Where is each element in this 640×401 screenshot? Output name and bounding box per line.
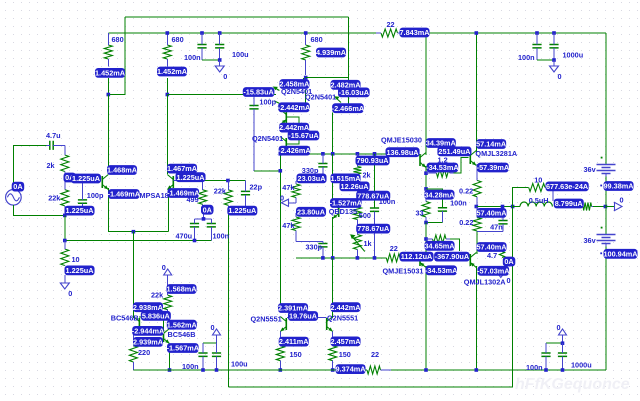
- current label 34.65mA: [425, 241, 456, 251]
- capacitor C 100p input: [78, 200, 87, 203]
- resistor R 10 gnd ref: [61, 249, 69, 266]
- junction x280 y154: [279, 152, 283, 156]
- wire x280 vas rail upper: [279, 150, 281, 304]
- wire Q6 collector jog: [333, 96, 349, 106]
- svg-text:112.12uA: 112.12uA: [401, 252, 433, 261]
- resistor R 2k input: [61, 155, 69, 172]
- wire BC546B bases tie: [139, 317, 164, 336]
- capacitor C 100n rightbot: [541, 353, 550, 356]
- junction y258 x357: [356, 256, 360, 260]
- ground top right: [553, 60, 555, 66]
- svg-text:Q2N5401: Q2N5401: [252, 134, 283, 143]
- current label 1.468mA: [107, 165, 138, 175]
- capacitor C 1000u topright: [549, 45, 558, 48]
- resistor R 47k upper: [292, 184, 300, 198]
- current label 5.836uA: [141, 311, 171, 321]
- svg-text:-2.466mA: -2.466mA: [332, 104, 365, 113]
- wire Vminus rail right: [391, 369, 606, 371]
- resistor R 680 no1: [104, 45, 112, 59]
- transistor Q3 Q2N5401 leads: [275, 88, 280, 91]
- resistor R 33: [422, 202, 430, 218]
- transistor Q9 BC546B: [163, 330, 165, 342]
- capacitor C 1000u rightbot: [558, 353, 567, 356]
- junction node x167 y94: [166, 93, 170, 97]
- junction input ground node: [63, 214, 67, 218]
- svg-text:BC546B: BC546B: [168, 330, 196, 339]
- resistor R load 8: [583, 203, 592, 211]
- svg-text:100n: 100n: [213, 232, 230, 241]
- current label -1.469mA Q1: [108, 189, 141, 199]
- wire caps bottom tie right: [537, 59, 554, 61]
- capacitor C 470u: [190, 224, 199, 227]
- wire x332 to Q15: [332, 258, 334, 318]
- current label 1.225uA fb: [227, 206, 257, 216]
- current label 677.63e-24A: [546, 182, 589, 192]
- resistor R 1.2 lower: [433, 235, 447, 243]
- svg-text:680: 680: [311, 35, 323, 44]
- junction y258 x322: [321, 256, 325, 260]
- svg-text:136.98uA: 136.98uA: [387, 148, 420, 157]
- svg-text:-57.39mA: -57.39mA: [477, 163, 510, 172]
- wire source bottom to input ground node: [13, 205, 64, 215]
- resistor R 680 no3: [302, 45, 310, 60]
- junction node x108 y94: [107, 93, 111, 97]
- wire drop x125 from y17 to input node: [108, 17, 125, 95]
- capacitor C 100n snubber: [438, 208, 447, 211]
- wire mirror line y94: [167, 94, 276, 96]
- capacitor C 100p comp: [249, 106, 258, 109]
- wire 10ohm to gnd: [64, 275, 66, 277]
- svg-text:23.80uA: 23.80uA: [297, 207, 326, 216]
- junction 1.2 lower left: [424, 237, 428, 241]
- wire Q1 emitter down: [108, 188, 168, 232]
- transistor Q7 QBD135: [338, 205, 340, 217]
- junction cap1000u top right: [552, 31, 556, 35]
- svg-text:QBD135: QBD135: [329, 207, 357, 216]
- wire tail down x133: [132, 232, 134, 318]
- current label 2.411mA: [279, 337, 310, 347]
- wire tap tie: [289, 202, 297, 204]
- current label -1.469mA Q2: [167, 188, 200, 198]
- junction out x476: [475, 205, 479, 209]
- wire Q45 base tie: [286, 117, 299, 144]
- current label 57.40mA upper: [477, 208, 508, 218]
- wire feedback riser x228: [227, 215, 229, 388]
- wire output+ collector x476: [475, 33, 477, 152]
- resistor R rail 22: [381, 29, 398, 37]
- terminal arrow out 0: [605, 206, 614, 208]
- battery V2 plus dot: [601, 157, 603, 159]
- wire fb node: [204, 180, 246, 182]
- current label 778.67uA top: [356, 191, 390, 201]
- svg-text:-367.90uA: -367.90uA: [435, 252, 470, 261]
- svg-text:47k: 47k: [282, 221, 295, 230]
- transistor Q10 QMJE15030: [419, 154, 421, 166]
- svg-text:5.836uA: 5.836uA: [142, 311, 171, 320]
- wire output node: [476, 206, 512, 208]
- resistor R 150 right: [329, 346, 337, 361]
- svg-text:33: 33: [416, 208, 424, 217]
- svg-text:1.452mA: 1.452mA: [157, 67, 188, 76]
- wire Q14 emitter: [279, 332, 281, 346]
- svg-text:778.67uA: 778.67uA: [357, 224, 390, 233]
- wire x426 to driver2 emitter: [425, 223, 427, 255]
- svg-text:100n: 100n: [526, 363, 543, 372]
- current label 1.225uA 10ohm: [65, 266, 95, 276]
- svg-text:330p: 330p: [306, 243, 323, 252]
- junction x476 rail: [475, 31, 479, 35]
- capacitor C 100n midbot: [198, 353, 207, 356]
- wire vas lower to driver base: [416, 257, 430, 259]
- junction 470u bottom: [193, 239, 197, 243]
- resistor R 0.22 upper: [473, 180, 481, 196]
- wire lag jog upper: [296, 178, 323, 182]
- svg-text:100.94mA: 100.94mA: [603, 249, 638, 258]
- transistor Q8 BC546B: [138, 318, 140, 330]
- wire mid caps top tie: [203, 342, 217, 344]
- resistor R 499: [199, 190, 207, 205]
- svg-text:1.468mA: 1.468mA: [107, 166, 138, 175]
- wire caps top tie: [195, 218, 212, 220]
- wire 499 to caps split: [203, 213, 205, 219]
- transistor Q1 MPSA18: [101, 176, 103, 188]
- svg-text:19.76uA: 19.76uA: [289, 312, 318, 321]
- current label -16.03uA: [338, 88, 370, 98]
- current label 19.76uA: [288, 311, 318, 321]
- svg-text:-15.83uA: -15.83uA: [243, 88, 274, 97]
- current label 2.442mA Q15: [331, 302, 362, 312]
- wire 680no1 to node: [107, 78, 109, 95]
- junction output tap2: [511, 205, 515, 209]
- svg-text:4.7: 4.7: [487, 251, 497, 260]
- wire x332 mirror drop: [332, 113, 334, 154]
- svg-text:2k: 2k: [363, 171, 372, 180]
- current label -34.53mA top: [426, 163, 459, 173]
- junction y154 x322: [321, 152, 325, 156]
- resistor R 150 left: [276, 346, 284, 361]
- junction x426 y222: [424, 221, 428, 225]
- svg-text:1.562mA: 1.562mA: [167, 320, 198, 329]
- transistor Q4 Q2N5401: [285, 111, 287, 123]
- wire right caps top tie: [546, 342, 563, 344]
- wire vas snubber jog: [426, 189, 443, 208]
- potentiometer arrow 1k: [352, 236, 365, 252]
- junction 680no3 bottom node: [304, 76, 308, 80]
- svg-text:0: 0: [558, 72, 562, 81]
- capacitor C 100u topleft: [215, 45, 224, 48]
- current label -57.03mA: [477, 266, 510, 276]
- capacitor C 330p lower: [318, 244, 327, 247]
- svg-text:1000u: 1000u: [563, 51, 584, 60]
- current label 112.12uA: [400, 252, 434, 262]
- wire Q3 collector jog: [280, 90, 305, 103]
- wire x332 qbd rail: [332, 154, 334, 205]
- svg-text:1k: 1k: [364, 239, 373, 248]
- wire V+ rail y33 left segment: [108, 32, 376, 34]
- battery V3 minus dot: [600, 252, 602, 254]
- current label 1.225uA 22k input: [65, 206, 95, 216]
- wire snubber bottom tie: [426, 222, 443, 224]
- svg-text:500: 500: [359, 211, 371, 220]
- current label 23.03uA: [297, 174, 327, 184]
- current label 34.28mA: [424, 190, 455, 200]
- current label 4.939mA: [316, 48, 347, 58]
- current label -34.53mA bottom: [425, 265, 458, 275]
- svg-text:-34.53mA: -34.53mA: [425, 266, 458, 275]
- svg-text:150: 150: [290, 350, 302, 359]
- ground input: [64, 277, 66, 283]
- capacitor C 100n fbshunt: [207, 224, 216, 227]
- svg-text:100n: 100n: [518, 53, 535, 62]
- current label 2.391mA: [278, 303, 309, 313]
- svg-text:0A: 0A: [504, 257, 514, 266]
- resistor R 1.2 upper: [437, 169, 451, 177]
- svg-text:100n: 100n: [450, 198, 467, 207]
- junction 150L rail: [279, 368, 283, 372]
- resistor R 47k lower: [292, 217, 300, 231]
- svg-text:47n: 47n: [490, 223, 503, 232]
- current label -2.426mA: [278, 146, 311, 156]
- current label 100.94mA: [603, 249, 638, 259]
- svg-text:Q2N5551: Q2N5551: [327, 314, 358, 323]
- current label 251.49uA: [437, 147, 471, 157]
- junction x476 vminus: [475, 368, 479, 372]
- wire input node to 100p: [65, 178, 83, 180]
- junction 100n midbot rail: [201, 368, 205, 372]
- svg-text:-57.03mA: -57.03mA: [477, 266, 510, 275]
- wire lag jog lower: [296, 241, 323, 243]
- wire 1302 emitter node: [476, 232, 478, 255]
- svg-text:1.452mA: 1.452mA: [95, 69, 126, 78]
- resistor R 22k feedback: [224, 190, 232, 206]
- wire 1.2 lower to base 1302: [450, 239, 460, 251]
- current label 12.26uA: [340, 182, 370, 192]
- resistor R 220: [129, 346, 137, 362]
- resistor R 22k current source: [164, 295, 172, 310]
- current label -57.39mA: [477, 163, 510, 173]
- junction gnd ref at 10ohm: [63, 239, 67, 243]
- junction y258 x374: [373, 256, 377, 260]
- svg-text:0: 0: [68, 289, 72, 298]
- wire Q13 collector to Vminus: [475, 266, 477, 370]
- svg-text:-2.944mA: -2.944mA: [132, 327, 165, 336]
- current label 0A bias: [503, 257, 516, 267]
- svg-text:100p: 100p: [87, 191, 104, 200]
- current label -1.527mA: [330, 198, 363, 208]
- current label -367.90uA: [434, 252, 470, 262]
- junction cap100n top left: [200, 31, 204, 35]
- svg-text:2.457mA: 2.457mA: [331, 337, 362, 346]
- current label 8.799uA: [554, 199, 584, 209]
- wire driver+ collector x426: [425, 37, 427, 155]
- junction y154 x357: [356, 152, 360, 156]
- svg-text:100n: 100n: [379, 197, 396, 206]
- svg-text:BC546B: BC546B: [111, 314, 139, 323]
- current label 57.14mA: [476, 139, 507, 149]
- wire caps bottom tie left: [202, 59, 220, 61]
- svg-text:4.7u: 4.7u: [46, 131, 61, 140]
- wire mirror top tie: [306, 77, 349, 79]
- wire feedback return: [228, 207, 512, 388]
- resistor R 22 vas: [386, 254, 400, 262]
- junction 1000u rightbot rail: [561, 368, 565, 372]
- wire 22p bottom jog: [228, 208, 245, 210]
- wire vas line y154: [280, 153, 416, 155]
- transistor Q11 QMJE15031: [419, 254, 421, 266]
- current label 1.452mA mid: [157, 67, 188, 77]
- wire comp cap to vas: [254, 170, 280, 172]
- source V1 sine: [6, 190, 22, 206]
- wire battery1 to center: [605, 177, 607, 207]
- junction output tap1: [501, 205, 505, 209]
- svg-text:QMJL3281A: QMJL3281A: [475, 149, 518, 158]
- capacitor C 22p: [241, 191, 250, 194]
- svg-text:100u: 100u: [231, 360, 248, 369]
- transistor Q15 Q2N5551: [326, 318, 328, 330]
- wire Q15 emitter: [332, 332, 334, 346]
- resistor R 22k input bias: [61, 190, 69, 206]
- junction cap100u top left: [218, 31, 222, 35]
- current label 0A Q1 base small: [64, 173, 77, 183]
- junction y154 x374: [373, 152, 377, 156]
- capacitor C 100u midbot: [212, 353, 221, 356]
- current label -15.67uA: [288, 131, 320, 141]
- svg-text:100p: 100p: [259, 98, 276, 107]
- transistor Q2 MPSA18: [172, 176, 174, 188]
- svg-text:150: 150: [339, 350, 351, 359]
- junction 150R rail: [331, 368, 335, 372]
- current label 1.515mA: [331, 174, 362, 184]
- current label 2.458mA: [279, 79, 310, 89]
- junction comp vas: [279, 169, 283, 173]
- svg-text:100u: 100u: [232, 50, 249, 59]
- current label 790.93uA: [356, 156, 390, 166]
- junction x426 vminus: [424, 368, 428, 372]
- svg-text:Q2N5551: Q2N5551: [251, 315, 282, 324]
- svg-text:0: 0: [211, 323, 215, 332]
- junction x426 y189: [424, 187, 428, 191]
- svg-text:22: 22: [371, 350, 379, 359]
- svg-text:7.843mA: 7.843mA: [400, 28, 431, 37]
- svg-text:10: 10: [534, 175, 542, 184]
- wire 5551 bases tie: [287, 317, 327, 319]
- svg-text:0: 0: [507, 276, 511, 285]
- wire load to center: [593, 206, 606, 208]
- resistor R 22 vminus: [367, 366, 381, 374]
- transistor Q12 QMJL3281A: [469, 152, 471, 164]
- svg-text:MPSA18: MPSA18: [140, 191, 169, 200]
- junction supply center: [604, 205, 608, 209]
- current label -1.567mA: [167, 343, 200, 353]
- junction right caps top: [561, 341, 565, 345]
- svg-text:0.22: 0.22: [459, 218, 473, 227]
- ground mid bottom: [213, 329, 221, 335]
- wire 1.2 upper to base 3281: [454, 158, 469, 174]
- wire Q10 emitter: [425, 166, 427, 189]
- svg-text:9.374mA: 9.374mA: [336, 365, 367, 374]
- junction bc2 emitter rail: [168, 368, 172, 372]
- capacitor C 47n: [498, 221, 507, 224]
- current label -15.83uA: [243, 87, 275, 97]
- resistor R 0.22 lower: [473, 218, 481, 232]
- wire V+ rail y33 right segment: [430, 32, 607, 34]
- wire 47n bottom tie: [477, 231, 503, 233]
- svg-text:1.225uA: 1.225uA: [66, 206, 95, 215]
- junction 100n rightbot rail: [544, 368, 548, 372]
- current label 2.442mA: [279, 123, 310, 133]
- svg-text:47k: 47k: [282, 183, 295, 192]
- transistor Q6 Q2N5401: [342, 84, 344, 96]
- svg-text:hFfKGequonce: hFfKGequonce: [515, 376, 630, 393]
- svg-text:-16.03uA: -16.03uA: [339, 88, 370, 97]
- svg-text:-1.469mA: -1.469mA: [108, 190, 141, 199]
- battery V2 minus dot: [600, 185, 602, 187]
- svg-text:0: 0: [557, 323, 561, 332]
- svg-text:1.2: 1.2: [438, 156, 448, 165]
- svg-text:680: 680: [172, 35, 184, 44]
- svg-text:2k: 2k: [47, 161, 56, 170]
- svg-text:0.5uH: 0.5uH: [529, 196, 549, 205]
- wire ground ref rail y240: [65, 215, 212, 240]
- resistor R 1k pot: [353, 235, 361, 250]
- current label 136.98uA: [386, 147, 420, 157]
- wire Vminus rail left: [133, 369, 367, 371]
- svg-text:1.225uA: 1.225uA: [177, 173, 206, 182]
- current label -2.442mA: [278, 102, 311, 112]
- wire V+ filtered sub-rail y17: [125, 16, 349, 18]
- junction x426 y173: [424, 171, 428, 175]
- current label 2.939mA: [133, 337, 164, 347]
- svg-text:-2.442mA: -2.442mA: [278, 103, 311, 112]
- transistor Q14 Q2N5551: [285, 318, 287, 330]
- wire x332 qbd to vr: [332, 217, 334, 258]
- current label 34.39mA: [426, 138, 457, 148]
- svg-text:-15.67uA: -15.67uA: [288, 131, 319, 140]
- wire Q2 base lead: [173, 180, 204, 182]
- transistor Q13 QMJL1302A: [469, 254, 471, 266]
- transistor Q6 base lead diagonal: [336, 98, 342, 103]
- junction caps gnd left: [218, 58, 222, 62]
- svg-text:10: 10: [72, 255, 80, 264]
- svg-text:790.93uA: 790.93uA: [357, 156, 390, 165]
- svg-text:0A: 0A: [203, 205, 213, 214]
- current label 2.457mA: [331, 337, 362, 347]
- svg-text:0.22: 0.22: [459, 187, 473, 196]
- resistor R 10 zobel: [529, 184, 545, 192]
- junction caps gnd right: [552, 58, 556, 62]
- wire source top to 4.7u: [13, 145, 46, 189]
- svg-text:QMJE15031: QMJE15031: [383, 267, 424, 276]
- junction y154 x332: [331, 152, 335, 156]
- svg-text:0: 0: [620, 196, 624, 205]
- svg-text:22p: 22p: [250, 183, 263, 192]
- svg-text:36v: 36v: [584, 236, 597, 245]
- current label 1.452mA left: [95, 68, 126, 78]
- ground top left: [219, 60, 221, 66]
- current label 0A 499: [201, 205, 214, 215]
- junction 680no2 top: [166, 31, 170, 35]
- current label 99.38mA: [604, 181, 635, 191]
- wire qbd top tie: [333, 201, 358, 203]
- svg-text:12.26uA: 12.26uA: [341, 182, 370, 191]
- current label 1.225uA Q1 base: [71, 174, 101, 184]
- svg-text:-1.567mA: -1.567mA: [167, 344, 200, 353]
- current label 1.568mA: [167, 284, 198, 294]
- current label 778.67uA bottom: [356, 224, 390, 234]
- current label 23.80uA: [296, 207, 326, 217]
- svg-text:2.442mA: 2.442mA: [331, 303, 362, 312]
- wire V+ rail drop x606: [605, 33, 607, 165]
